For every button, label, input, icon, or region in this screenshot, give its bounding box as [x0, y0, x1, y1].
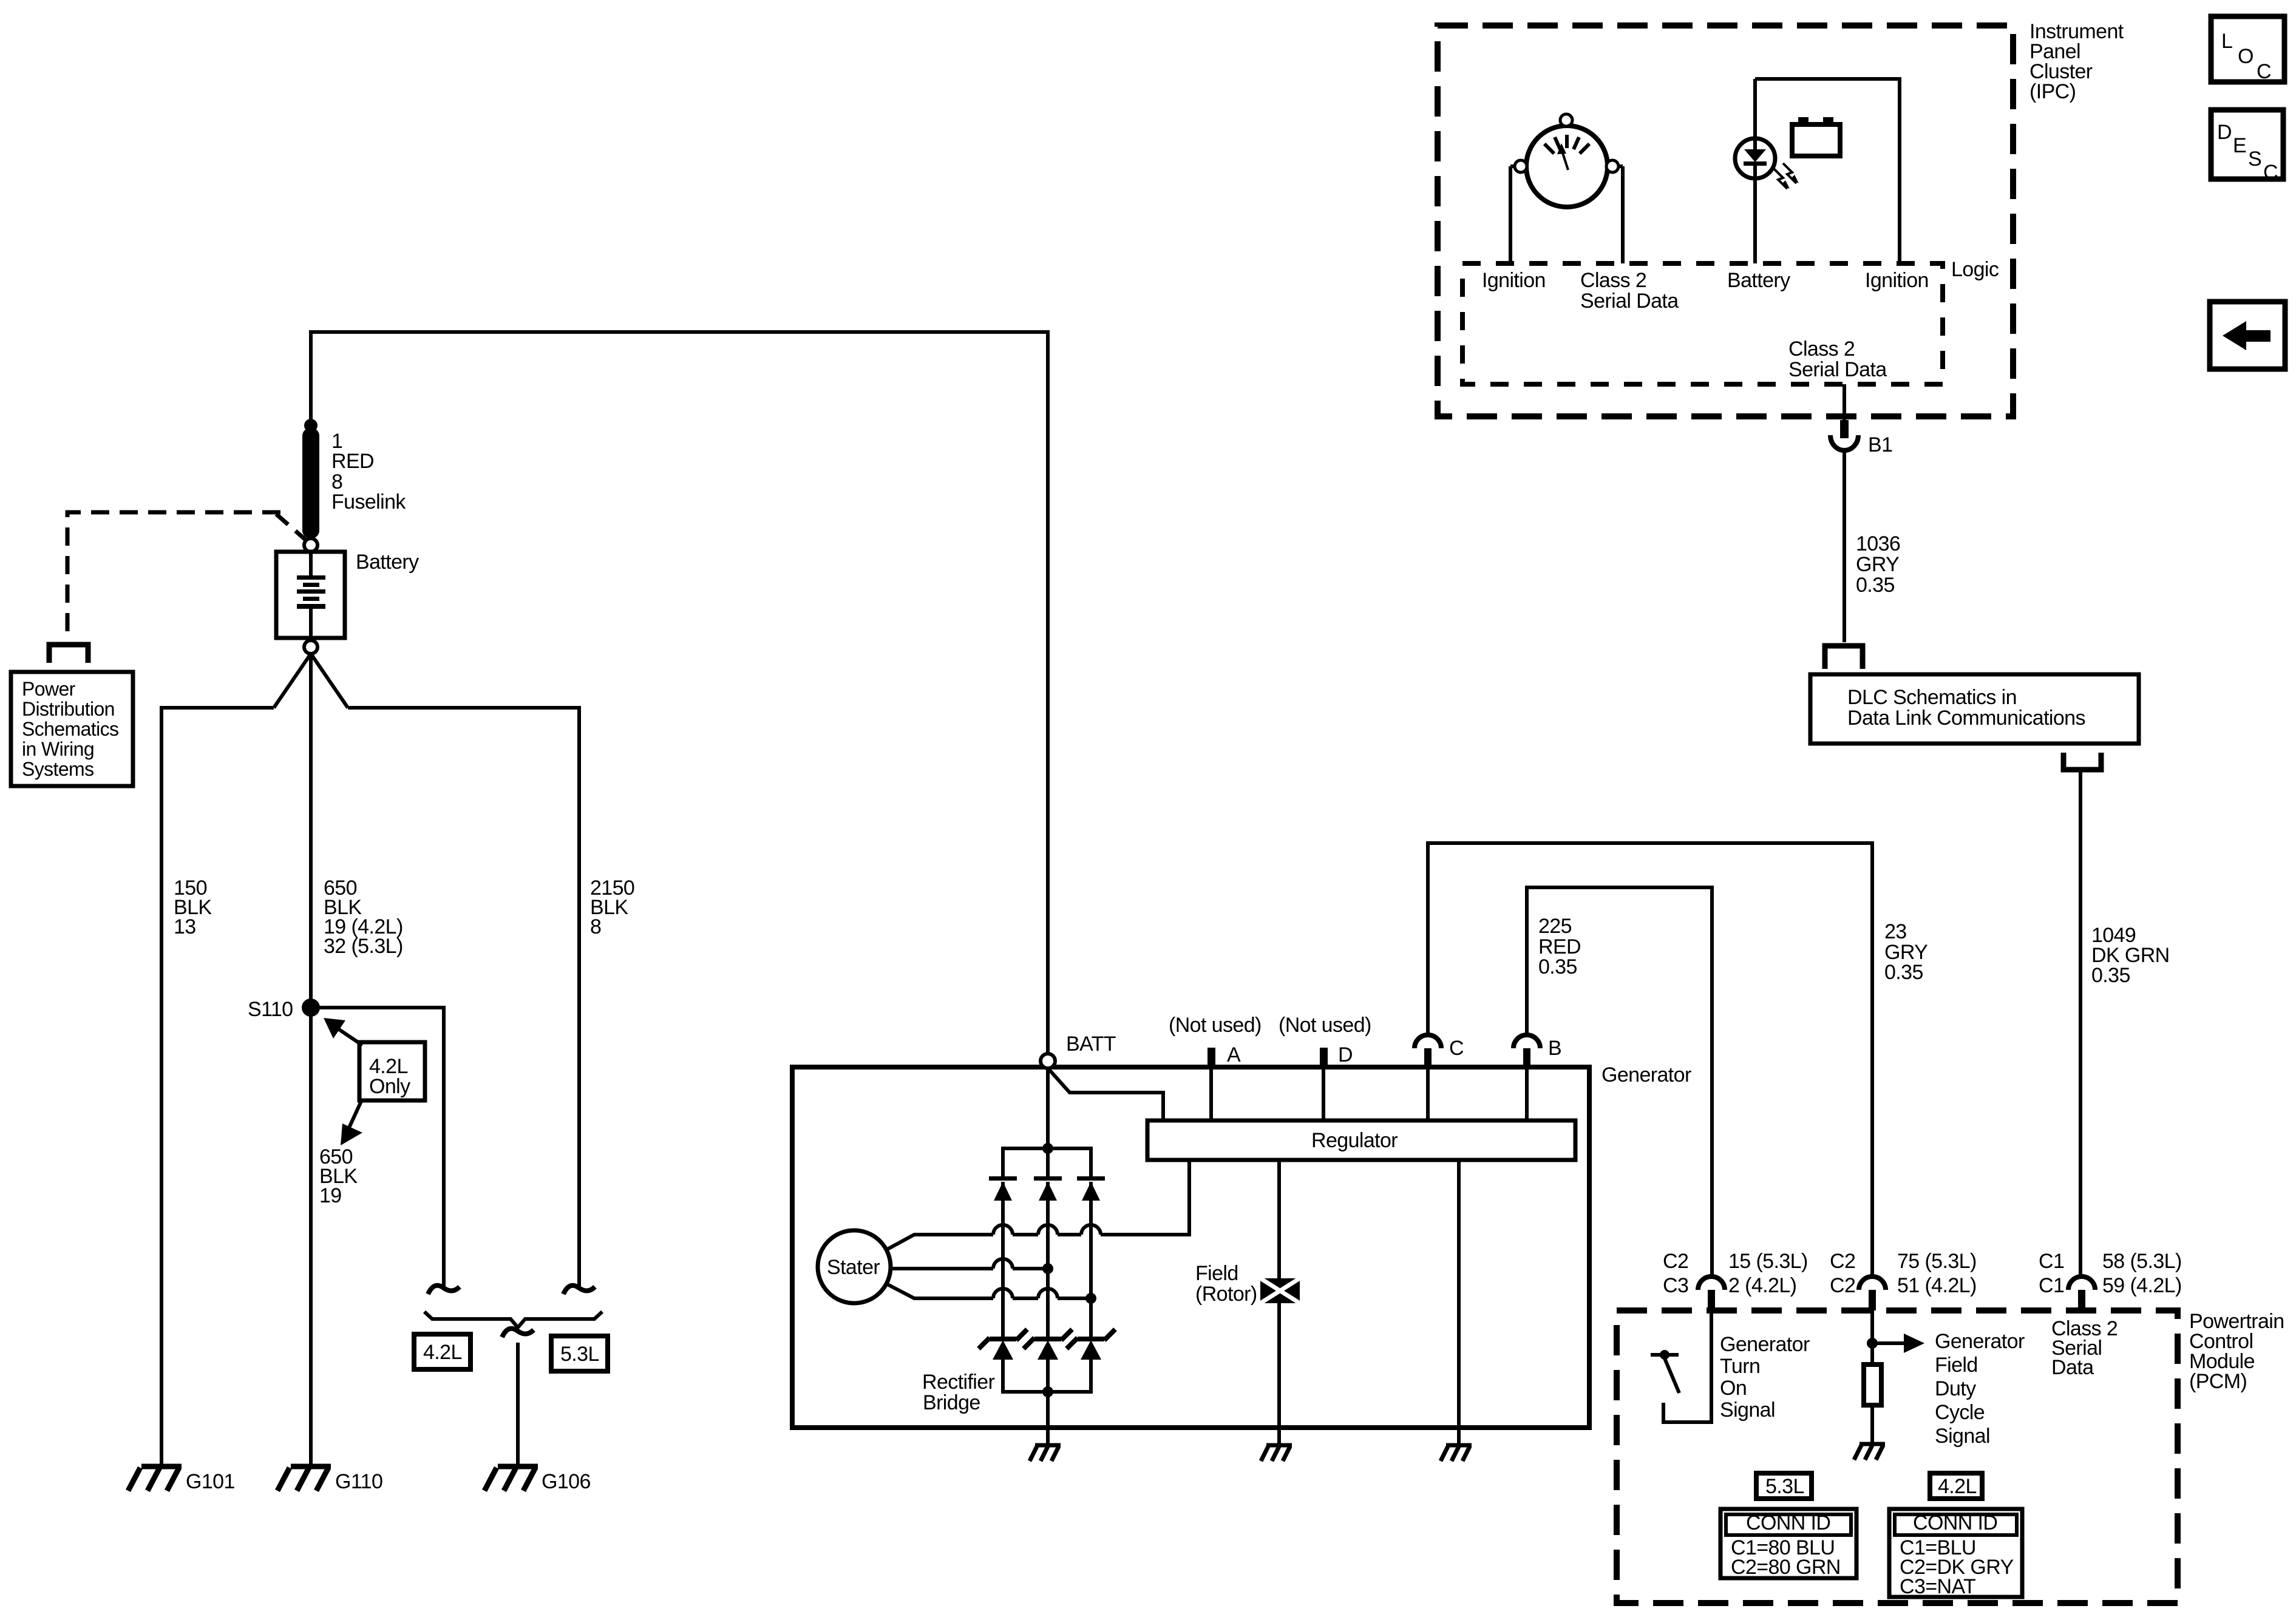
svg-text:23: 23: [1884, 920, 1907, 943]
ground G110: [277, 1466, 331, 1491]
terminal B1: [1843, 384, 1846, 420]
rectifier lower diode 3: [1067, 1329, 1115, 1349]
brace joining 4.2L/5.3L branches: [424, 1312, 602, 1327]
back arrow box: [2210, 302, 2285, 369]
battery telltale icon: [1792, 124, 1840, 156]
svg-text:Generator: Generator: [1720, 1333, 1810, 1356]
svg-text:5.3L: 5.3L: [560, 1343, 599, 1366]
svg-text:C: C: [2257, 60, 2271, 83]
BATT terminal ring: [1041, 1054, 1055, 1068]
IPC dashed box: [1438, 25, 2013, 416]
DESC legend box: [2211, 110, 2283, 179]
Power Distribution Schematics box: [11, 672, 133, 786]
connector C1/C1 pin at PCM: [2068, 1276, 2095, 1290]
LOC legend box: [2211, 16, 2284, 82]
wire: lead to G106: [516, 1343, 520, 1464]
battery B box: [276, 552, 345, 638]
svg-text:(Not used): (Not used): [1169, 1014, 1262, 1037]
svg-text:58 (5.3L): 58 (5.3L): [2102, 1250, 2182, 1273]
svg-text:Distribution: Distribution: [22, 698, 115, 720]
rectifier upper diode 2: [1034, 1176, 1062, 1181]
wire: regulator right leg to ground: [1457, 1160, 1461, 1445]
svg-text:Battery: Battery: [1727, 269, 1790, 292]
svg-text:2 (4.2L): 2 (4.2L): [1728, 1274, 1796, 1297]
svg-text:Duty: Duty: [1935, 1377, 1976, 1400]
stator phase wire 1 to regulator: [886, 1160, 1189, 1250]
4.2L tag box: [414, 1334, 470, 1369]
LED light arrows: [1774, 163, 1796, 189]
gauge body: [1526, 126, 1608, 207]
wire: S110 branch right: [311, 1008, 444, 1288]
wire+ground under rectifier: [1046, 1428, 1050, 1445]
ground in PCM: [1854, 1444, 1885, 1460]
svg-text:Power: Power: [22, 678, 76, 700]
svg-text:4.2L: 4.2L: [423, 1341, 462, 1364]
field rotor symbol: [1277, 1160, 1281, 1428]
ground G101: [128, 1466, 182, 1491]
terminal D (Not used): [1320, 1048, 1328, 1068]
svg-text:59 (4.2L): 59 (4.2L): [2102, 1274, 2182, 1297]
svg-text:Only: Only: [369, 1075, 410, 1098]
connector bracket below DLC box: [2063, 753, 2101, 770]
svg-text:Signal: Signal: [1720, 1398, 1775, 1422]
5.3L tag box: [551, 1336, 608, 1371]
svg-text:in Wiring: in Wiring: [22, 738, 94, 760]
wire: 1049 DK GRN: [2079, 770, 2082, 1275]
logic dashed box: [1462, 263, 1943, 384]
svg-text:BATT: BATT: [1066, 1032, 1116, 1056]
svg-text:Serial Data: Serial Data: [1580, 290, 1679, 313]
svg-text:On: On: [1720, 1377, 1747, 1400]
svg-text:Fuselink: Fuselink: [331, 490, 406, 514]
wire: 225 RED from B to PCM: [1527, 887, 1712, 1275]
svg-text:B1: B1: [1868, 433, 1892, 456]
connector C2/C3 pin at PCM: [1698, 1276, 1725, 1290]
svg-text:CONN ID: CONN ID: [1746, 1511, 1830, 1534]
wire: 1036 GRY: [1843, 452, 1846, 642]
svg-text:Data Link Communications: Data Link Communications: [1847, 707, 2085, 730]
wire+ground under field: [1277, 1428, 1281, 1445]
svg-text:32 (5.3L): 32 (5.3L): [324, 935, 403, 958]
svg-text:Serial Data: Serial Data: [1788, 358, 1887, 381]
svg-text:19: 19: [319, 1184, 342, 1207]
svg-text:GRY: GRY: [1856, 553, 1899, 576]
wire: field duty cycle internal: [1870, 1310, 1874, 1364]
svg-text:Regulator: Regulator: [1311, 1129, 1398, 1152]
svg-text:1036: 1036: [1856, 532, 1900, 555]
svg-text:O: O: [2238, 45, 2254, 68]
wire: battery feed top loop 1 RED: [311, 332, 1048, 1054]
svg-text:Schematics: Schematics: [22, 718, 118, 740]
ground G106: [484, 1466, 538, 1491]
svg-text:G106: G106: [542, 1470, 591, 1493]
svg-text:Stater: Stater: [827, 1256, 880, 1279]
svg-text:(PCM): (PCM): [2189, 1370, 2247, 1393]
svg-text:Generator: Generator: [1935, 1330, 2025, 1353]
battery internal plates: [309, 554, 313, 575]
svg-text:(Not used): (Not used): [1279, 1014, 1371, 1037]
svg-text:Turn: Turn: [1720, 1355, 1760, 1378]
svg-text:5.3L: 5.3L: [1765, 1475, 1804, 1498]
terminal B connector: [1513, 1035, 1540, 1048]
svg-text:75 (5.3L): 75 (5.3L): [1897, 1250, 1977, 1273]
svg-text:C2: C2: [1830, 1250, 1855, 1273]
connector ring above battery: [304, 538, 318, 552]
callout arrow to S110: [335, 1026, 362, 1045]
connector bracket above DLC box: [1825, 646, 1863, 669]
arrow to label: [1872, 1341, 1906, 1345]
callout arrow to 650 label: [348, 1099, 362, 1129]
svg-text:Class 2: Class 2: [1788, 337, 1855, 361]
gauge wires: [1510, 166, 1623, 263]
wire: 23 GRY from C to PCM: [1428, 843, 1872, 1275]
svg-text:13: 13: [174, 915, 196, 938]
svg-text:Signal: Signal: [1935, 1425, 1990, 1448]
4.2L tag above CONN ID: [1930, 1473, 1982, 1499]
svg-text:Systems: Systems: [22, 758, 94, 780]
LED indicator: [1735, 138, 1775, 178]
LED indicator wire: [1753, 79, 1757, 263]
svg-text:Field: Field: [1195, 1262, 1238, 1285]
svg-text:C1: C1: [2039, 1274, 2064, 1297]
CONN ID table 5.3L: [1720, 1509, 1856, 1578]
svg-text:B: B: [1548, 1037, 1561, 1060]
svg-text:8: 8: [590, 915, 601, 938]
svg-text:0.35: 0.35: [1884, 961, 1923, 984]
svg-text:(Rotor): (Rotor): [1195, 1283, 1257, 1306]
splice S110 dot: [302, 998, 320, 1017]
stator phase wire 2: [891, 1267, 1048, 1270]
DLC reference box: [1810, 674, 2139, 744]
connector C2/C2 pin at PCM: [1859, 1276, 1886, 1290]
fuselink F1 junction dot: [304, 419, 318, 432]
svg-text:C1: C1: [2039, 1250, 2064, 1273]
rectifier top bus: [1003, 1070, 1091, 1178]
svg-text:Rectifier: Rectifier: [922, 1371, 995, 1394]
5.3L tag above CONN ID: [1756, 1473, 1812, 1499]
svg-text:CONN ID: CONN ID: [1913, 1511, 1997, 1534]
svg-text:51 (4.2L): 51 (4.2L): [1897, 1274, 1977, 1297]
svg-text:0.35: 0.35: [1856, 574, 1895, 597]
svg-text:Ignition: Ignition: [1865, 269, 1929, 292]
wire: D stub to regulator: [1322, 1068, 1325, 1120]
wire: C stub to regulator: [1426, 1068, 1430, 1120]
svg-text:0.35: 0.35: [1538, 955, 1577, 978]
gauge ticks: [1544, 135, 1589, 154]
dashed reference wire to Power Distribution: [67, 512, 280, 641]
terminal A (Not used): [1207, 1048, 1215, 1068]
rectifier lower diode 2: [1024, 1329, 1072, 1349]
rectifier upper diode 3: [1077, 1176, 1105, 1181]
wire: BATT to regulator: [1049, 1070, 1163, 1120]
svg-text:225: 225: [1538, 915, 1572, 938]
svg-text:C3=NAT: C3=NAT: [1900, 1575, 1975, 1598]
svg-text:L: L: [2221, 30, 2232, 53]
svg-text:C2=80 GRN: C2=80 GRN: [1731, 1556, 1841, 1579]
svg-text:Ignition: Ignition: [1482, 269, 1546, 292]
regulator box: [1147, 1120, 1575, 1160]
generator box: [792, 1067, 1589, 1428]
svg-text:0.35: 0.35: [2091, 964, 2130, 987]
svg-text:A: A: [1227, 1043, 1241, 1066]
svg-text:RED: RED: [331, 450, 374, 473]
svg-text:4.2L: 4.2L: [1938, 1475, 1977, 1498]
rectifier lower diode 1: [979, 1329, 1027, 1349]
svg-text:Data: Data: [2051, 1356, 2094, 1379]
wire: A stub to regulator: [1209, 1068, 1213, 1120]
svg-text:C3: C3: [1663, 1274, 1688, 1297]
stator phase wire 3: [886, 1284, 1091, 1298]
rectifier upper diode 1: [989, 1176, 1017, 1181]
wire: B stub to regulator: [1525, 1068, 1529, 1120]
svg-text:C2: C2: [1663, 1250, 1688, 1273]
wire: LED top to Ignition pin: [1755, 79, 1900, 263]
splice crimp to G106 lead: [502, 1329, 534, 1337]
svg-text:Logic: Logic: [1951, 258, 1999, 281]
wire: 2150 BLK branch: [348, 708, 579, 1288]
wire: 650 BLK continues to G110: [309, 1008, 313, 1464]
svg-text:D: D: [2217, 121, 2232, 144]
svg-text:S: S: [2248, 147, 2261, 171]
wire: 150 BLK branch: [161, 708, 274, 1464]
svg-text:15 (5.3L): 15 (5.3L): [1728, 1250, 1808, 1273]
svg-text:G110: G110: [335, 1470, 382, 1493]
svg-text:Battery: Battery: [356, 551, 419, 574]
svg-text:D: D: [1338, 1043, 1353, 1066]
svg-text:C: C: [1449, 1037, 1464, 1060]
stator verticals between diodes: [1003, 1225, 1091, 1338]
svg-text:DLC Schematics in: DLC Schematics in: [1847, 686, 2017, 709]
svg-text:C: C: [2263, 161, 2278, 184]
svg-text:E: E: [2233, 134, 2246, 157]
svg-text:Class 2: Class 2: [1580, 269, 1646, 292]
svg-text:Cycle: Cycle: [1935, 1401, 1985, 1424]
stater circle: [818, 1230, 891, 1303]
svg-text:G101: G101: [186, 1470, 235, 1493]
gauge needle: [1563, 153, 1568, 170]
svg-text:Bridge: Bridge: [923, 1391, 980, 1414]
svg-text:Field: Field: [1935, 1354, 1978, 1377]
rectifier bottom bus: [1003, 1360, 1091, 1428]
resistor in PCM: [1864, 1364, 1881, 1405]
PCM dashed box: [1617, 1310, 2178, 1603]
svg-text:Generator: Generator: [1601, 1063, 1691, 1086]
connector bracket above Power Distribution box: [49, 645, 88, 663]
splice crimp on 2150 branch: [563, 1286, 595, 1294]
switch in PCM: [1651, 1353, 1679, 1357]
svg-text:S110: S110: [248, 998, 293, 1021]
svg-text:(IPC): (IPC): [2029, 80, 2076, 103]
svg-text:C2: C2: [1830, 1274, 1855, 1297]
connector ring below battery: [304, 640, 318, 654]
CONN ID table 4.2L: [1889, 1509, 2022, 1597]
4.2L Only callout box: [359, 1042, 425, 1100]
splice crimp on 650 branch: [428, 1286, 460, 1294]
terminal C connector: [1415, 1035, 1441, 1048]
wire: generator turn on signal internal: [1663, 1310, 1711, 1422]
wire: ground splits Y from battery: [274, 654, 348, 1008]
fuselink F1 body: [302, 428, 319, 538]
